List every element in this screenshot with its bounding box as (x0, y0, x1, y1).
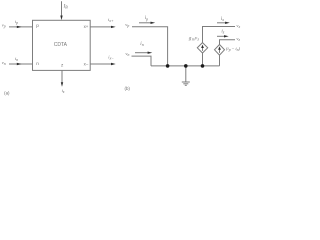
arrowhead inside G2 up (218, 46, 221, 49)
wire: riser from source G2 to z node (220, 40, 236, 45)
svg-text:vp: vp (2, 23, 6, 29)
svg-text:z: z (61, 62, 64, 67)
svg-text:in: in (140, 42, 143, 47)
arrowhead i_n (148, 52, 153, 54)
wire: z terminal bottom (61, 70, 63, 83)
svg-text:vn: vn (2, 60, 6, 66)
svg-text:iz: iz (221, 30, 224, 35)
junction dot at ground (184, 64, 188, 68)
svg-text:vp: vp (125, 22, 129, 28)
wire: ground stub (185, 66, 187, 82)
svg-text:in: in (15, 56, 18, 62)
wire: bias pin top (61, 1, 63, 17)
svg-text:vn: vn (125, 51, 129, 57)
wire: p input (9, 26, 33, 28)
svg-text:CDTA: CDTA (54, 42, 68, 48)
svg-text:ip: ip (15, 19, 18, 25)
svg-text:iz: iz (62, 88, 65, 94)
wire: x+ output (90, 26, 112, 28)
svg-text:IB: IB (63, 5, 69, 10)
arrow shaft inside G1 (202, 46, 204, 51)
wire: i_n current arrow shaft (135, 52, 148, 54)
arrowhead i_n (17, 63, 22, 65)
svg-text:vz: vz (236, 36, 240, 42)
svg-text:vx: vx (236, 23, 240, 29)
svg-text:(b): (b) (125, 86, 131, 91)
svg-text:(ip−in): (ip−in) (226, 46, 241, 52)
svg-text:ix: ix (221, 17, 224, 22)
wire: G1 bottom riser (202, 53, 204, 66)
svg-text:(a): (a) (4, 90, 10, 95)
wire: i_x current arrow shaft (217, 22, 226, 24)
arrowhead inside G1 up (201, 45, 204, 48)
dependent source G1 diamond (g_m v_z) (197, 43, 207, 53)
svg-text:gmvz: gmvz (189, 36, 200, 42)
CDTA box U1 (33, 20, 91, 70)
wire: v_p input and riser to ground rail (132, 27, 168, 66)
wire: v_n input with step down (132, 56, 152, 66)
svg-text:p: p (36, 23, 39, 28)
svg-text:x−: x− (84, 61, 89, 66)
junction dot at G1 bottom (201, 64, 205, 68)
svg-text:ix−: ix− (108, 55, 114, 61)
arrowhead i_z (224, 35, 229, 37)
arrow shaft inside G2 (219, 48, 221, 53)
arrowhead i_x+ (111, 26, 116, 28)
junction dot at v_p riser (166, 64, 170, 68)
wire: riser from source G1 to x node (203, 27, 236, 43)
arrowhead bias current down (60, 16, 62, 21)
svg-text:x+: x+ (84, 24, 89, 29)
wire: G2 bottom riser (219, 55, 221, 66)
wire: n input (9, 63, 33, 65)
dependent source G2 diamond (i_p - i_n) (215, 45, 225, 56)
arrowhead i_z down (61, 82, 63, 87)
wire: i_z current arrow shaft (217, 35, 224, 37)
wire: i_p current arrow shaft (139, 22, 151, 24)
arrowhead i_x (225, 22, 230, 24)
arrowhead i_p (151, 22, 156, 24)
svg-text:n: n (36, 61, 39, 66)
ground symbol (182, 82, 190, 85)
arrowhead i_x- (111, 63, 116, 65)
svg-text:ix+: ix+ (108, 17, 114, 23)
svg-text:ip: ip (145, 16, 148, 21)
wire: bottom common rail (151, 65, 220, 67)
wire: x- output (90, 63, 112, 65)
arrowhead i_p (17, 26, 22, 28)
